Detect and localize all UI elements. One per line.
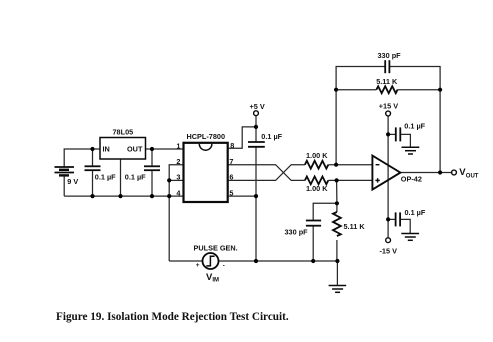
node dot output [438, 170, 442, 174]
resistor R2 1.00K bottom [305, 177, 328, 185]
wire R4 top lead [336, 203, 338, 212]
battery BT1 9V [55, 167, 75, 175]
svg-text:3: 3 [176, 173, 180, 182]
node dot C2 top [150, 147, 154, 151]
svg-text:-: - [223, 262, 225, 269]
wire HCPL pin 8 to +5V node [228, 127, 256, 148]
node dot pin4 rail [167, 194, 171, 198]
node dot 78L05 gnd [118, 194, 122, 198]
svg-text:5.11 K: 5.11 K [376, 77, 398, 86]
svg-text:OUT: OUT [127, 145, 143, 154]
wire HCPL pin 2 [169, 165, 183, 261]
ground G1 (+15V bypass) [402, 147, 420, 154]
svg-text:5.11 K: 5.11 K [344, 222, 366, 231]
terminal -15V [386, 238, 391, 243]
wire op-amp output [400, 172, 451, 174]
svg-text:0.1 µF: 0.1 µF [261, 132, 282, 141]
wire ground stem mid [336, 261, 338, 286]
regulator U1 78L05 box [100, 138, 146, 160]
svg-text:2: 2 [176, 157, 180, 166]
wire 330pF bottom to rail [312, 226, 314, 261]
svg-text:+5 V: +5 V [250, 102, 265, 111]
wire HCPL pin 5 [228, 195, 256, 197]
wire feedback top right [389, 67, 440, 173]
ground G2 (-15V bypass) [401, 234, 419, 241]
resistor R4 5.11K vertical [333, 212, 341, 236]
svg-text:0.1 µF: 0.1 µF [125, 172, 146, 181]
resistor R1 1.00K top [305, 161, 328, 169]
pulse generator step symbol [206, 256, 214, 266]
svg-text:6: 6 [229, 173, 233, 182]
svg-text:-15 V: -15 V [380, 247, 398, 256]
wire HCPL pin 7 crossing to lower resistor [228, 165, 305, 181]
svg-text:OUT: OUT [466, 174, 479, 180]
wire C2 vertical [151, 149, 153, 166]
svg-text:IM: IM [212, 277, 219, 283]
svg-text:9 V: 9 V [67, 177, 78, 186]
svg-text:Figure 19. Isolation Mode Reje: Figure 19. Isolation Mode Rejection Test… [56, 311, 289, 323]
terminal +5V [254, 111, 259, 116]
node dot feedback right [438, 88, 442, 92]
svg-text:PULSE GEN.: PULSE GEN. [194, 244, 238, 253]
svg-text:+: + [196, 262, 200, 269]
terminal +15V [386, 111, 391, 116]
capacitor C6 0.1uF plates (+15V bypass) [396, 127, 401, 141]
node dot C1 top [90, 147, 94, 151]
node dot feedback left [334, 88, 338, 92]
svg-text:+15 V: +15 V [379, 101, 398, 110]
capacitor C3 0.1uF plates (+5V bypass) [248, 142, 265, 147]
wire C1 vertical [92, 149, 94, 166]
wire RC node left branch to 330pF [313, 203, 337, 220]
svg-text:IN: IN [103, 145, 110, 154]
node dot C2 bottom [150, 194, 154, 198]
IC U2 HCPL-7800 box [184, 143, 228, 202]
resistor R3 5.11K feedback [376, 86, 397, 93]
node dot 330pF rail [311, 259, 315, 263]
capacitor C5 330pF plates [306, 221, 321, 226]
svg-text:8: 8 [230, 141, 234, 150]
wire feedback resistor row right [398, 89, 441, 91]
svg-text:HCPL-7800: HCPL-7800 [187, 132, 226, 141]
wire pulse gen right lead to mid rail [219, 260, 338, 262]
svg-text:78L05: 78L05 [113, 127, 134, 136]
IC U2 notch [199, 144, 212, 150]
wire -15V bypass stub [388, 218, 396, 220]
svg-text:0.1 µF: 0.1 µF [405, 208, 426, 217]
node dot +15V branch [386, 132, 390, 136]
capacitor C2 0.1uF plates [144, 166, 160, 170]
capacitor C1 0.1uF plates [85, 166, 101, 170]
wire R2 out to op-amp plus input [328, 179, 372, 181]
op-amp minus marker [376, 164, 380, 166]
wire op-amp supply vertical [387, 116, 389, 238]
wire battery top to 78L05 IN [64, 149, 100, 167]
wire HCPL pin 6 crossing to upper resistor [228, 165, 305, 181]
wire +5V bypass down through pin5 node [255, 147, 257, 261]
svg-text:OP-42: OP-42 [401, 174, 422, 183]
svg-text:7: 7 [229, 157, 233, 166]
svg-text:5: 5 [229, 188, 233, 197]
svg-text:0.1 µF: 0.1 µF [404, 122, 425, 131]
wire feedback resistor row left [336, 89, 376, 91]
capacitor C7 0.1uF plates (-15V bypass) [396, 212, 401, 226]
wire R4 bottom lead [336, 240, 338, 261]
svg-text:0.1 µF: 0.1 µF [95, 172, 116, 181]
node dot GND2 rail [254, 259, 258, 263]
svg-text:330 pF: 330 pF [285, 227, 309, 236]
op-amp plus marker [375, 178, 379, 182]
wire bottom rail left section [64, 195, 183, 197]
wire feedback left vertical [336, 67, 385, 165]
node dot 5.11K rail [335, 259, 339, 263]
node dot pin3 [167, 178, 171, 182]
wire plus node down to RC node [336, 180, 338, 203]
svg-text:330 pF: 330 pF [378, 51, 402, 60]
wire 78L05 OUT to HCPL pin 1 [146, 148, 184, 150]
node dot +5V branch [254, 125, 258, 129]
wire 78L05 GND stub [120, 159, 122, 196]
terminal VOUT [452, 170, 457, 175]
wire -15V bypass to ground [400, 219, 410, 233]
capacitor C4 330pF feedback plates [385, 60, 389, 73]
wire +5V terminal down [255, 116, 257, 142]
wire +15V bypass stub [388, 133, 396, 135]
wire R1 out to op-amp minus input [328, 164, 372, 166]
wire pulse gen left lead [169, 260, 202, 262]
svg-text:1: 1 [176, 141, 180, 150]
node dot -15V branch [386, 217, 390, 221]
node dot RC junction [335, 201, 339, 205]
svg-text:1.00 K: 1.00 K [306, 151, 328, 160]
node dot C1 bottom [90, 194, 94, 198]
wire HCPL pin 3 [169, 179, 183, 181]
node dot pin5 [254, 194, 258, 198]
svg-text:1.00 K: 1.00 K [306, 184, 328, 193]
wire battery bottom to ground rail [63, 175, 65, 196]
ground G3 (output network) [329, 286, 347, 293]
wire +15V bypass to ground [400, 134, 410, 147]
node dot minus input [334, 163, 338, 167]
node dot plus input [335, 178, 339, 182]
op-amp U3 OP-42 triangle [372, 156, 400, 190]
pulse generator source circle [203, 253, 219, 269]
